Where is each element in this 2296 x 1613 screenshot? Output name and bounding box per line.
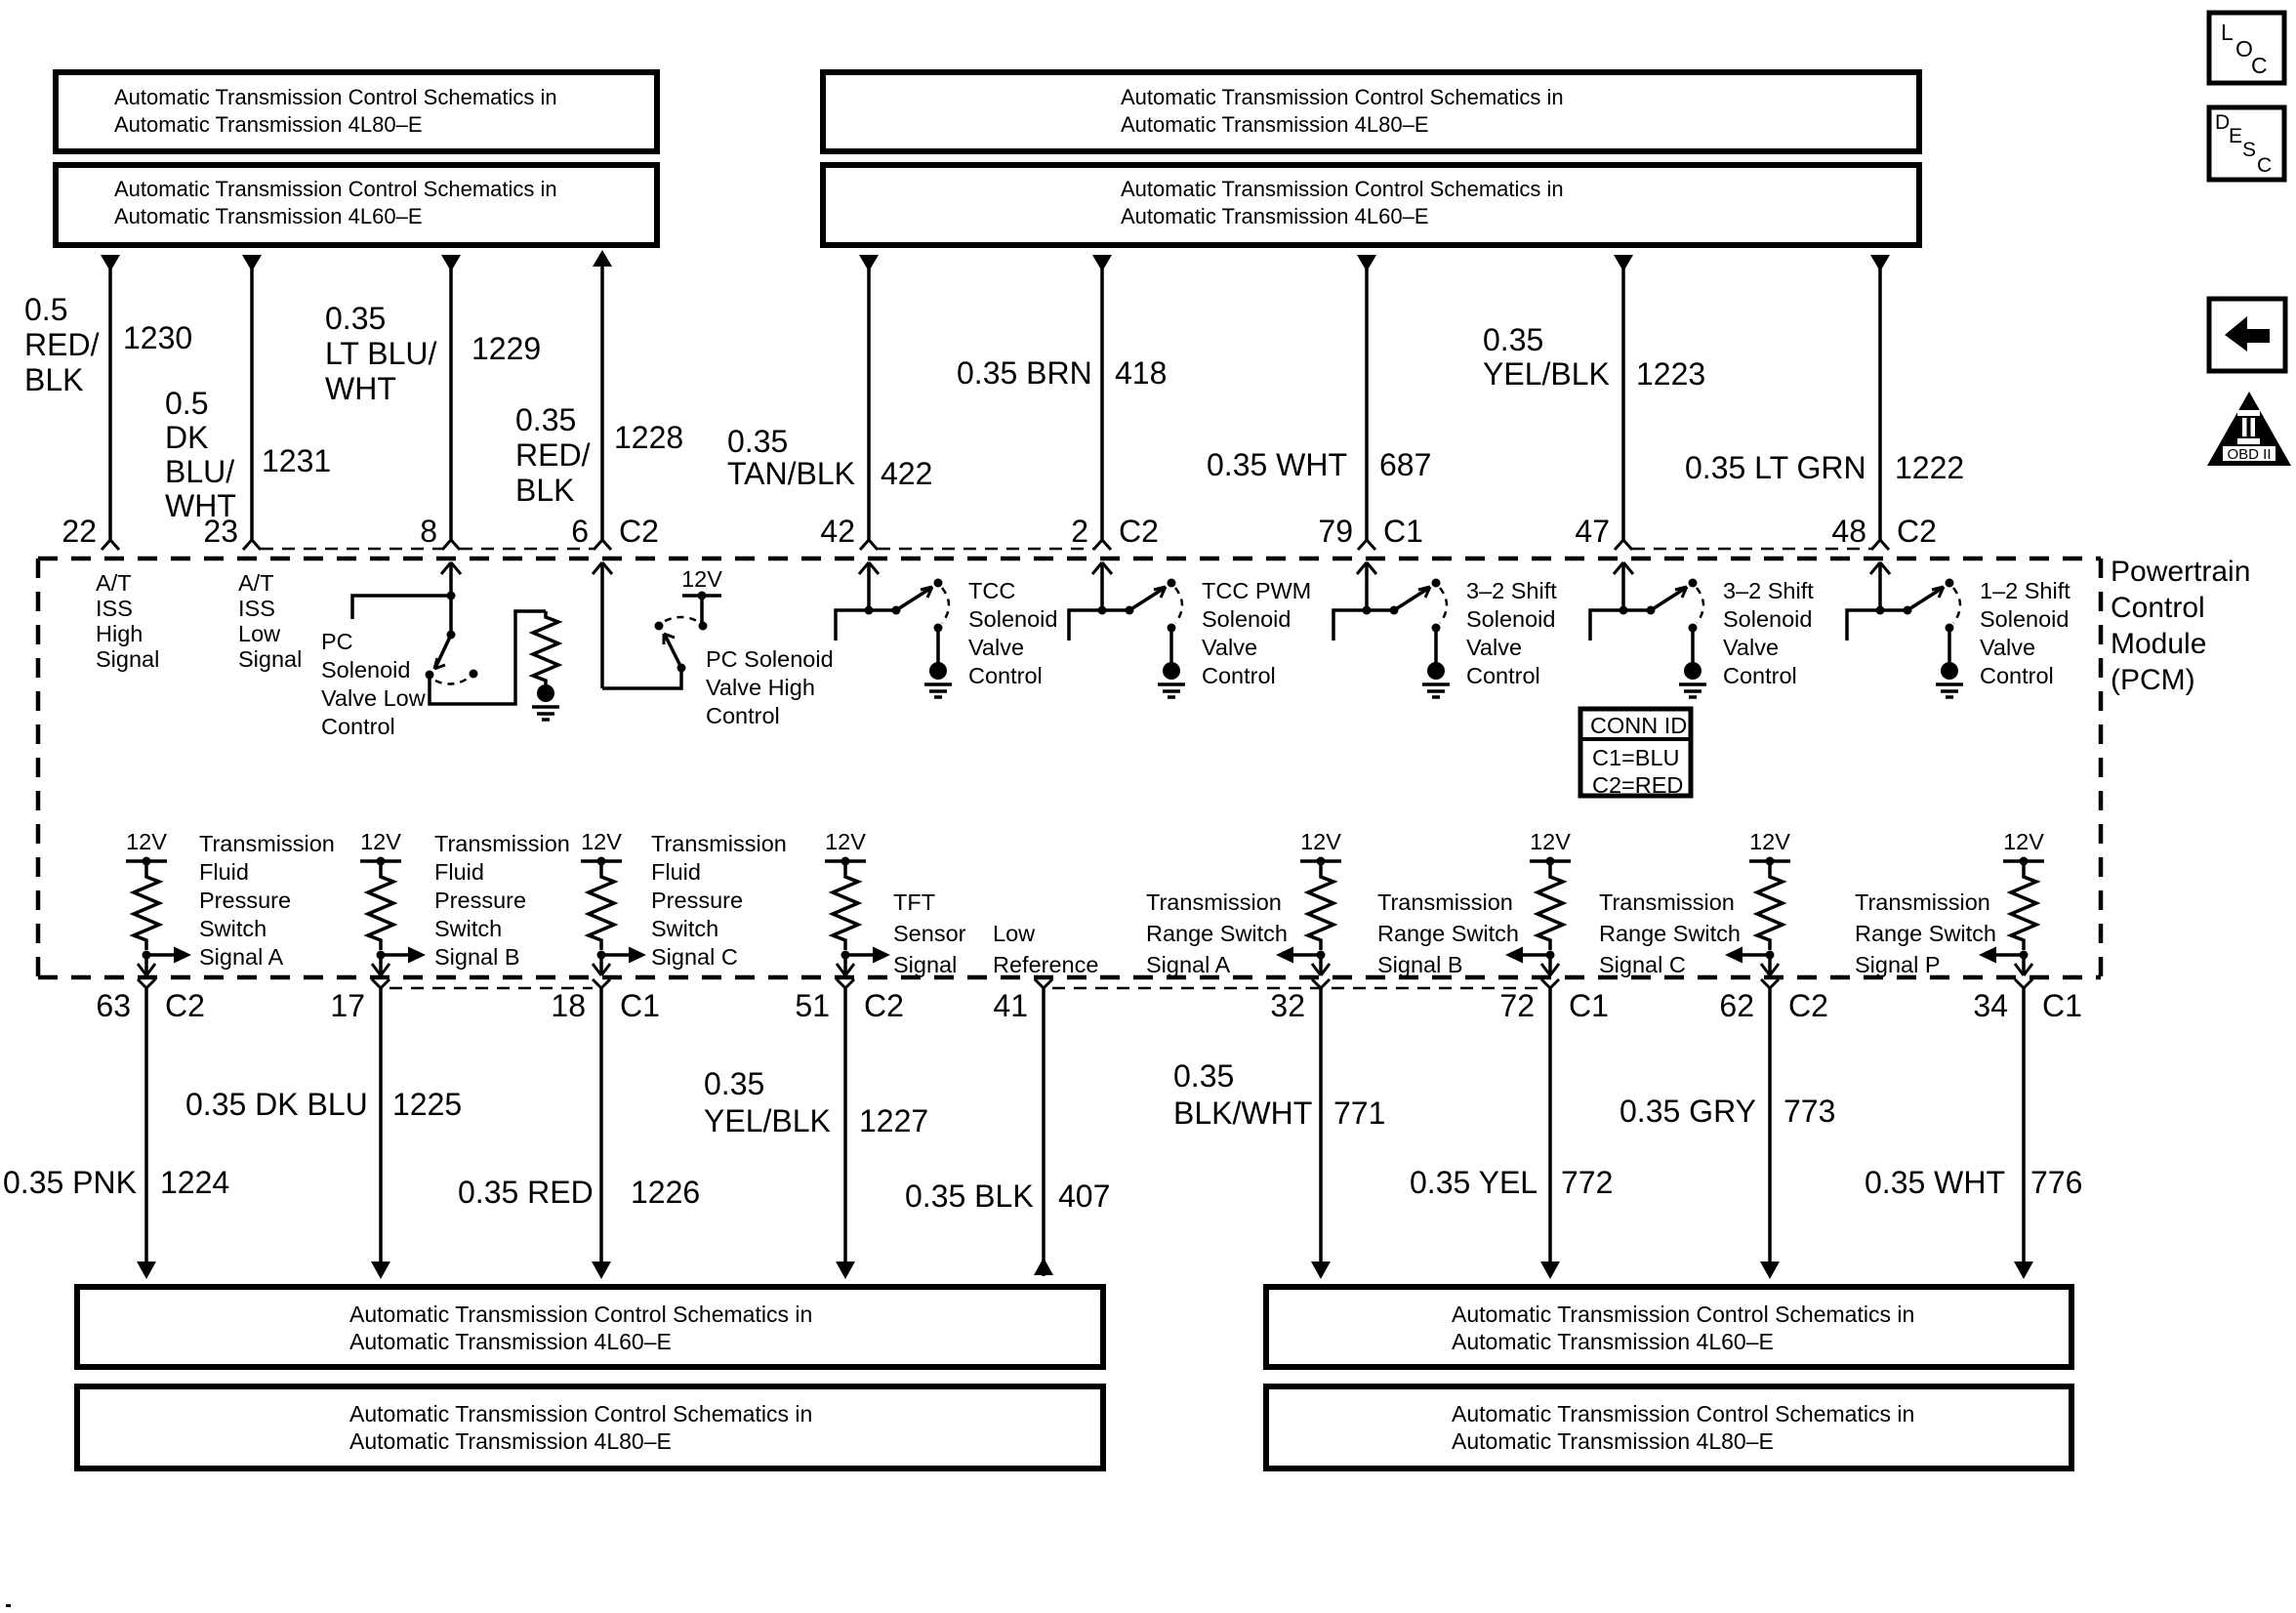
svg-text:422: 422 [881, 456, 932, 491]
junction dot (1-2 Shift Solenoid Valve Control (pin 48)) [1876, 606, 1885, 615]
wire circuit 418 (vertical, to pin 2) [1092, 255, 1112, 540]
wire label 0.35 DK BLU [185, 1087, 368, 1122]
svg-text:Signal C: Signal C [1599, 952, 1686, 977]
label: PC Solenoid Valve High Control [706, 646, 834, 728]
svg-text:Automatic Transmission Control: Automatic Transmission Control Schematic… [349, 1401, 812, 1427]
wire stub left (1-2 Shift Solenoid Valve Control (pin 48)) [1847, 610, 1880, 641]
12V pull-up and resistor: Transmission Fluid Pressure Switch Signal A [126, 829, 167, 960]
svg-text:Automatic Transmission Control: Automatic Transmission Control Schematic… [1452, 1302, 1914, 1327]
label: Transmission Range Switch Signal B [1377, 889, 1519, 977]
pin 51 connector (bottom): TFT Sensor Signal [837, 979, 854, 988]
wire to switch arm (TCC Solenoid Valve Control (pin 42)) [869, 608, 896, 612]
switch arm pivot (1-2 Shift Solenoid Valve Control (pin 48)) [1904, 606, 1912, 615]
pin 79 connector (PCM C1) [1358, 540, 1375, 550]
svg-text:Solenoid: Solenoid [1466, 606, 1555, 632]
svg-text:Reference: Reference [993, 952, 1098, 977]
svg-text:1–2 Shift: 1–2 Shift [1980, 578, 2070, 603]
label: TFT Sensor Signal [893, 889, 966, 977]
wire to ground (TCC Solenoid Valve Control (pin 42)) [936, 628, 940, 663]
svg-text:42: 42 [820, 514, 855, 549]
wire label 0.5 RED/BLK [24, 292, 100, 397]
svg-text:Signal A: Signal A [1146, 952, 1231, 977]
signal tap arrow: Transmission Fluid Pressure Switch Signal A [146, 947, 191, 964]
driver: 3-2 Shift Solenoid Valve Control (pin 79) [1357, 562, 1376, 610]
svg-text:62: 62 [1719, 988, 1754, 1023]
svg-text:D: D [2215, 111, 2230, 134]
resistor (PC solenoid low, internal) [533, 611, 558, 684]
driver: 1-2 Shift Solenoid Valve Control (pin 48) [1870, 562, 1890, 610]
wire label 0.35 BLK [905, 1179, 1034, 1214]
svg-text:12V: 12V [126, 829, 167, 854]
svg-text:47: 47 [1575, 514, 1610, 549]
driver: TCC PWM Solenoid Valve Control (pin 2) [1092, 562, 1112, 610]
dashed switch travel arc (3-2 Shift Solenoid Valve Control (pin 79)) [1440, 588, 1447, 623]
wire to bottom pin with chevron: TFT Sensor Signal [837, 955, 854, 975]
svg-text:C1=BLU: C1=BLU [1592, 745, 1679, 770]
label: Transmission Range Switch Signal C [1599, 889, 1741, 977]
svg-text:0.5: 0.5 [24, 292, 67, 327]
svg-text:1222: 1222 [1895, 450, 1964, 485]
switch contact PC low (left) [426, 671, 434, 680]
wire from PC low contact to resistor [430, 611, 546, 704]
svg-text:0.35 LT GRN: 0.35 LT GRN [1685, 450, 1866, 485]
wire to bottom pin with chevron: Transmission Range Switch Signal B [1541, 955, 1559, 975]
svg-text:Control: Control [1980, 663, 2054, 688]
ground (1-2 Shift Solenoid Valve Control (pin 48)) [1936, 662, 1963, 697]
ground (PC solenoid low resistor) [532, 684, 559, 720]
svg-text:0.35 WHT: 0.35 WHT [1865, 1165, 2005, 1200]
svg-text:Control: Control [968, 663, 1043, 688]
svg-text:Transmission: Transmission [651, 831, 787, 856]
svg-text:Control: Control [2111, 592, 2205, 624]
switch arm PC low (with arrowhead) [434, 635, 451, 669]
ground (3-2 Shift Solenoid Valve Control (pin 79)) [1422, 662, 1450, 697]
svg-text:12V: 12V [581, 829, 622, 854]
wire circuit 407 (vertical, below PCM) [1034, 988, 1053, 1276]
pin 2 connector (PCM C2) [1093, 540, 1111, 550]
wire circuit 1222 (vertical, to pin 48) [1870, 255, 1890, 540]
svg-text:Pressure: Pressure [199, 888, 291, 913]
svg-text:Solenoid: Solenoid [968, 606, 1057, 632]
svg-text:C2: C2 [1788, 988, 1828, 1023]
12V pull-up and resistor: Transmission Range Switch Signal C [1749, 829, 1790, 960]
pin 48 connector (PCM C2) [1871, 540, 1889, 550]
node: schematic reference box, bottom-right, Automatic Transmission 4L60-E [1266, 1287, 2071, 1367]
svg-text:Switch: Switch [434, 916, 502, 941]
svg-text:3–2 Shift: 3–2 Shift [1466, 578, 1557, 603]
svg-text:0.35: 0.35 [727, 424, 788, 459]
wire circuit 1225 (vertical, below PCM) [371, 988, 390, 1279]
svg-text:Signal P: Signal P [1855, 952, 1941, 977]
wire to bottom pin with chevron: Transmission Fluid Pressure Switch Signal A [138, 955, 155, 975]
wire label 0.35 BRN [957, 355, 1092, 391]
svg-text:C1: C1 [2042, 988, 2082, 1023]
svg-text:Transmission: Transmission [434, 831, 570, 856]
label: 3-2 Shift Solenoid Valve Control (pin 79) [1466, 578, 1557, 688]
12V pull-up and resistor: Transmission Range Switch Signal A [1300, 829, 1341, 960]
LOC icon box [2209, 13, 2284, 83]
pin 72 connector (bottom): Range Switch Signal B [1541, 979, 1559, 988]
svg-text:BLK: BLK [515, 473, 574, 508]
svg-text:TCC PWM: TCC PWM [1202, 578, 1311, 603]
wire circuit 776 (vertical, below PCM) [2014, 988, 2033, 1279]
svg-text:6: 6 [571, 514, 589, 549]
svg-text:YEL/BLK: YEL/BLK [704, 1103, 831, 1138]
svg-text:48: 48 [1831, 514, 1866, 549]
wire to ground (3-2 Shift Solenoid Valve Control (pin 47)) [1691, 628, 1695, 663]
switch contact bottom (3-2 Shift Solenoid Valve Control (pin 47)) [1689, 624, 1698, 633]
svg-text:Switch: Switch [651, 916, 718, 941]
wire circuit 771 (vertical, below PCM) [1311, 988, 1331, 1279]
svg-text:Control: Control [1466, 663, 1540, 688]
svg-text:0.35: 0.35 [515, 402, 576, 437]
wire to bottom pin with chevron: Transmission Range Switch Signal C [1761, 955, 1779, 975]
svg-text:0.5: 0.5 [165, 386, 208, 421]
node: Low Reference (pin 41) [993, 921, 1098, 977]
wire circuit 1230 (vertical, to pin 22) [101, 255, 120, 540]
svg-text:Automatic Transmission Control: Automatic Transmission Control Schematic… [1121, 85, 1564, 109]
pin 6 connector (PCM C2) [594, 540, 611, 550]
svg-text:RED/: RED/ [24, 327, 100, 362]
svg-text:1229: 1229 [471, 331, 541, 366]
svg-text:TAN/BLK: TAN/BLK [727, 456, 855, 491]
wire circuit 1224 (vertical, below PCM) [137, 988, 156, 1279]
svg-text:Automatic Transmission 4L60–E: Automatic Transmission 4L60–E [114, 204, 423, 228]
switch contact PC low (right, open) [470, 670, 478, 679]
connector boundary line segment pins 8-6 (fine dashed) [460, 548, 594, 551]
wire label 0.35 WHT [1207, 447, 1347, 482]
svg-text:12V: 12V [2003, 829, 2044, 854]
svg-text:771: 771 [1333, 1096, 1385, 1131]
svg-text:C2: C2 [619, 514, 659, 549]
switch contact bottom (TCC PWM Solenoid Valve Control (pin 2)) [1168, 624, 1176, 633]
12V pull-up and resistor: Transmission Fluid Pressure Switch Signal B [360, 829, 401, 960]
node: 12V (PC high) [698, 592, 707, 600]
svg-text:687: 687 [1379, 447, 1431, 482]
svg-text:PC: PC [321, 629, 353, 654]
svg-text:0.35 WHT: 0.35 WHT [1207, 447, 1347, 482]
svg-text:BLK: BLK [24, 362, 83, 397]
svg-text:1231: 1231 [262, 443, 331, 478]
svg-text:1228: 1228 [614, 420, 683, 455]
dashed switch travel arc (1-2 Shift Solenoid Valve Control (pin 48)) [1953, 588, 1960, 623]
switch contact top (TCC Solenoid Valve Control (pin 42)) [934, 579, 943, 588]
driver: PC Solenoid Valve High Control (pin 6) [593, 562, 612, 688]
svg-text:Sensor: Sensor [893, 921, 966, 946]
svg-text:776: 776 [2030, 1165, 2082, 1200]
switch arm pivot (3-2 Shift Solenoid Valve Control (pin 79)) [1390, 606, 1399, 615]
svg-text:RED/: RED/ [515, 437, 591, 473]
svg-text:C1: C1 [620, 988, 660, 1023]
svg-text:Switch: Switch [199, 916, 266, 941]
switch arm with arrowhead (3-2 Shift Solenoid Valve Control (pin 79)) [1394, 587, 1430, 610]
svg-text:Low: Low [993, 921, 1036, 946]
connector boundary line segment pins 47-48 (fine dashed) [1632, 548, 1871, 551]
svg-text:Automatic Transmission Control: Automatic Transmission Control Schematic… [1121, 177, 1564, 201]
svg-text:0.35: 0.35 [704, 1066, 764, 1101]
12V pull-up and resistor: Transmission Range Switch Signal B [1530, 829, 1571, 960]
svg-text:TFT: TFT [893, 889, 935, 915]
signal tap arrow: Transmission Range Switch Signal C [1725, 947, 1770, 964]
svg-text:Range Switch: Range Switch [1377, 921, 1519, 946]
svg-text:Pressure: Pressure [434, 888, 526, 913]
pin 34 connector (bottom): Range Switch Signal P [2015, 979, 2032, 988]
dashed switch travel arc (3-2 Shift Solenoid Valve Control (pin 47)) [1697, 588, 1703, 623]
node: A/T ISS Low Signal (pin 23) [238, 570, 302, 672]
svg-text:Valve: Valve [968, 635, 1024, 660]
svg-text:Automatic Transmission 4L80–E: Automatic Transmission 4L80–E [349, 1428, 672, 1454]
wire to bottom pin with chevron: Transmission Range Switch Signal P [2015, 955, 2032, 975]
svg-text:High: High [96, 621, 143, 646]
svg-text:C2=RED: C2=RED [1592, 772, 1683, 798]
svg-text:0.35 PNK: 0.35 PNK [3, 1165, 137, 1200]
svg-text:C2: C2 [1119, 514, 1159, 549]
pin 8 connector (PCM) [442, 540, 460, 550]
wire from pin 6 to switch arm pivot [602, 672, 681, 688]
switch contact top (TCC PWM Solenoid Valve Control (pin 2)) [1168, 579, 1176, 588]
svg-text:CONN ID: CONN ID [1590, 713, 1687, 738]
wire to ground (3-2 Shift Solenoid Valve Control (pin 79)) [1434, 628, 1438, 663]
svg-text:Transmission: Transmission [199, 831, 335, 856]
svg-text:Module: Module [2111, 628, 2206, 660]
svg-text:ISS: ISS [238, 596, 275, 621]
junction dot (3-2 Shift Solenoid Valve Control (pin 79)) [1363, 606, 1372, 615]
svg-text:C: C [2257, 154, 2272, 177]
svg-text:0.35 GRY: 0.35 GRY [1619, 1094, 1756, 1129]
ground (3-2 Shift Solenoid Valve Control (pin 47)) [1679, 662, 1706, 697]
wire label 0.35 YEL/BLK [1483, 322, 1610, 392]
svg-text:Range Switch: Range Switch [1599, 921, 1741, 946]
driver: TCC Solenoid Valve Control (pin 42) [859, 562, 879, 610]
label: Transmission Fluid Pressure Switch Signal B [434, 831, 570, 970]
svg-text:72: 72 [1499, 988, 1535, 1023]
svg-text:LT BLU/: LT BLU/ [325, 336, 437, 371]
svg-text:WHT: WHT [165, 488, 236, 523]
svg-text:1227: 1227 [859, 1103, 928, 1138]
wire label 0.35 WHT (lower) [1865, 1165, 2005, 1200]
wire label 0.35 YEL/BLK (lower) [704, 1066, 831, 1138]
svg-text:41: 41 [993, 988, 1028, 1023]
svg-text:0.35 BRN: 0.35 BRN [957, 355, 1092, 391]
svg-text:Range Switch: Range Switch [1146, 921, 1288, 946]
node: A/T ISS High Signal (pin 22) [96, 570, 159, 672]
svg-text:E: E [2229, 125, 2242, 147]
svg-text:Automatic Transmission 4L80–E: Automatic Transmission 4L80–E [1121, 112, 1429, 137]
pin 63 connector (bottom): TFPS Signal A [138, 979, 155, 988]
wire to bottom pin with chevron: Transmission Fluid Pressure Switch Signal B [372, 955, 389, 975]
svg-text:Automatic Transmission 4L80–E: Automatic Transmission 4L80–E [114, 112, 423, 137]
driver: PC Solenoid Valve Low Control (pin 8) [441, 562, 461, 635]
wire to bottom pin with chevron: Transmission Fluid Pressure Switch Signal C [593, 955, 610, 975]
switch arm pivot PC high [677, 664, 686, 673]
label: 3-2 Shift Solenoid Valve Control (pin 47) [1723, 578, 1814, 688]
pin 22 connector (PCM) [102, 540, 119, 550]
svg-text:1224: 1224 [160, 1165, 229, 1200]
wire circuit 1226 (vertical, below PCM) [592, 988, 611, 1279]
svg-text:Signal: Signal [238, 646, 302, 672]
svg-text:Control: Control [1202, 663, 1276, 688]
wire stub left of PC solenoid low driver [352, 596, 451, 619]
svg-text:Automatic Transmission Control: Automatic Transmission Control Schematic… [349, 1302, 812, 1327]
switch contact top (1-2 Shift Solenoid Valve Control (pin 48)) [1946, 579, 1954, 588]
svg-text:Transmission: Transmission [1146, 889, 1282, 915]
svg-text:Signal B: Signal B [434, 944, 520, 970]
switch arm with arrowhead (3-2 Shift Solenoid Valve Control (pin 47)) [1651, 587, 1687, 610]
back-arrow icon box [2209, 299, 2285, 371]
svg-text:Automatic Transmission Control: Automatic Transmission Control Schematic… [114, 85, 557, 109]
wire to ground (1-2 Shift Solenoid Valve Control (pin 48)) [1947, 628, 1951, 663]
12V pull-up and resistor: Transmission Range Switch Signal P [2003, 829, 2044, 960]
svg-text:Automatic Transmission Control: Automatic Transmission Control Schematic… [114, 177, 557, 201]
svg-text:12V: 12V [360, 829, 401, 854]
svg-text:BLK/WHT: BLK/WHT [1173, 1096, 1312, 1131]
wire circuit 422 (vertical, to pin 42) [859, 255, 879, 540]
svg-text:Signal B: Signal B [1377, 952, 1463, 977]
svg-text:Control: Control [321, 714, 395, 739]
svg-text:C1: C1 [1569, 988, 1609, 1023]
svg-text:WHT: WHT [325, 371, 396, 406]
label: Transmission Fluid Pressure Switch Signal A [199, 831, 335, 970]
svg-text:Low: Low [238, 621, 281, 646]
label: TCC Solenoid Valve Control (pin 42) [968, 578, 1057, 688]
svg-text:0.35: 0.35 [1483, 322, 1543, 357]
dashed switch travel arc PC low [435, 679, 468, 684]
wire circuit 1228 (vertical, to pin 6) [593, 250, 612, 540]
CONN ID legend box (C1=BLU, C2=RED) [1580, 709, 1691, 798]
label: Transmission Range Switch Signal P [1855, 889, 1996, 977]
svg-text:C2: C2 [165, 988, 205, 1023]
svg-text:Automatic Transmission 4L60–E: Automatic Transmission 4L60–E [349, 1329, 672, 1354]
connector boundary line segment pins 41-72 (fine dashed) [1052, 987, 1541, 990]
wire label 0.35 RED/BLK [515, 402, 591, 508]
Powertrain Control Module (PCM) dashed enclosure [38, 558, 2101, 977]
node: schematic reference box, bottom-left, Automatic Transmission 4L60-E [77, 1287, 1103, 1367]
signal tap arrow: Transmission Fluid Pressure Switch Signal C [601, 947, 646, 964]
switch arm PC high (with arrowhead) [664, 634, 681, 668]
pin 23 connector (PCM) [243, 540, 261, 550]
switch contact bottom (1-2 Shift Solenoid Valve Control (pin 48)) [1946, 624, 1954, 633]
svg-text:773: 773 [1783, 1094, 1835, 1129]
svg-text:Transmission: Transmission [1855, 889, 1990, 915]
svg-text:Fluid: Fluid [199, 859, 249, 885]
svg-text:Automatic Transmission 4L60–E: Automatic Transmission 4L60–E [1452, 1329, 1774, 1354]
svg-text:Fluid: Fluid [651, 859, 701, 885]
dashed switch travel arc (TCC PWM Solenoid Valve Control (pin 2)) [1175, 588, 1182, 623]
svg-text:32: 32 [1270, 988, 1305, 1023]
wire to switch arm (3-2 Shift Solenoid Valve Control (pin 47)) [1623, 608, 1651, 612]
svg-text:Automatic Transmission 4L60–E: Automatic Transmission 4L60–E [1121, 204, 1429, 228]
wire circuit 772 (vertical, below PCM) [1540, 988, 1560, 1279]
svg-text:51: 51 [795, 988, 830, 1023]
svg-text:Powertrain: Powertrain [2111, 556, 2250, 588]
wire stub left (3-2 Shift Solenoid Valve Control (pin 47)) [1590, 610, 1623, 641]
svg-text:C2: C2 [1897, 514, 1937, 549]
svg-text:Control: Control [1723, 663, 1797, 688]
node: schematic reference box, bottom-left, Automatic Transmission 4L80-E [77, 1386, 1103, 1468]
svg-text:3–2 Shift: 3–2 Shift [1723, 578, 1814, 603]
label: PC Solenoid Valve Low Control [321, 629, 427, 739]
svg-text:Transmission: Transmission [1377, 889, 1513, 915]
svg-text:0.35: 0.35 [325, 301, 386, 336]
svg-text:Signal A: Signal A [199, 944, 284, 970]
wire to bottom pin with chevron: Transmission Range Switch Signal A [1312, 955, 1330, 975]
pin 41 connector (bottom): Low Reference [1035, 979, 1052, 988]
svg-text:(PCM): (PCM) [2111, 664, 2195, 696]
svg-text:Valve High: Valve High [706, 675, 815, 700]
stray scan mark bottom-left [6, 1604, 11, 1607]
svg-text:Solenoid: Solenoid [1202, 606, 1291, 632]
svg-text:Range Switch: Range Switch [1855, 921, 1996, 946]
DESC icon box [2209, 107, 2284, 180]
pin 42 connector (PCM) [860, 540, 878, 550]
svg-text:Valve: Valve [1980, 635, 2035, 660]
svg-text:C2: C2 [864, 988, 904, 1023]
pin 18 connector (bottom): TFPS Signal C [593, 979, 610, 988]
svg-text:0.35 YEL: 0.35 YEL [1410, 1165, 1537, 1200]
switch contact (arm pivot) PC low [447, 631, 456, 640]
switch arm with arrowhead (1-2 Shift Solenoid Valve Control (pin 48)) [1907, 587, 1944, 610]
svg-text:63: 63 [96, 988, 131, 1023]
svg-text:12V: 12V [1300, 829, 1341, 854]
svg-text:772: 772 [1561, 1165, 1613, 1200]
node: schematic reference box, top-left, Automatic Transmission 4L60-E [56, 165, 657, 245]
svg-text:Valve: Valve [1466, 635, 1522, 660]
node: schematic reference box, top-right, Automatic Transmission 4L80-E [823, 72, 1919, 151]
svg-text:A/T: A/T [238, 570, 274, 596]
svg-text:12V: 12V [1530, 829, 1571, 854]
junction dot (TCC PWM Solenoid Valve Control (pin 2)) [1098, 606, 1107, 615]
svg-text:0.35: 0.35 [1173, 1058, 1234, 1094]
12V pull-up and resistor: Transmission Fluid Pressure Switch Signal C [581, 829, 622, 960]
wire circuit 773 (vertical, below PCM) [1760, 988, 1780, 1279]
switch contact bottom (TCC Solenoid Valve Control (pin 42)) [934, 624, 943, 633]
dashed switch travel arc (TCC Solenoid Valve Control (pin 42)) [942, 588, 949, 623]
switch arm with arrowhead (TCC PWM Solenoid Valve Control (pin 2)) [1129, 587, 1166, 610]
svg-text:Automatic Transmission Control: Automatic Transmission Control Schematic… [1452, 1401, 1914, 1427]
signal tap arrow: Transmission Range Switch Signal B [1505, 947, 1550, 964]
svg-text:Fluid: Fluid [434, 859, 484, 885]
signal tap arrow: Transmission Range Switch Signal P [1979, 947, 2024, 964]
svg-text:C: C [2251, 53, 2268, 78]
12V supply rail (PC high) [682, 596, 721, 626]
svg-text:0.35 RED: 0.35 RED [458, 1175, 594, 1210]
svg-text:17: 17 [330, 988, 365, 1023]
node junction at pin 8 branch [447, 592, 456, 600]
svg-text:C1: C1 [1383, 514, 1423, 549]
wire stub left (TCC PWM Solenoid Valve Control (pin 2)) [1069, 610, 1102, 641]
wire label 0.35 LT GRN [1685, 450, 1866, 485]
svg-text:Valve Low: Valve Low [321, 685, 427, 711]
svg-text:BLU/: BLU/ [165, 454, 234, 489]
svg-text:0.35 DK BLU: 0.35 DK BLU [185, 1087, 368, 1122]
svg-text:Signal: Signal [893, 952, 957, 977]
wire label 0.35 PNK [3, 1165, 137, 1200]
junction dot (3-2 Shift Solenoid Valve Control (pin 47)) [1619, 606, 1628, 615]
svg-text:2: 2 [1071, 514, 1088, 549]
svg-text:407: 407 [1058, 1179, 1110, 1214]
wire label 0.35 TAN/BLK [727, 424, 855, 491]
label: Powertrain Control Module (PCM) [2111, 556, 2250, 696]
svg-text:Solenoid: Solenoid [1723, 606, 1812, 632]
12V pull-up and resistor: TFT Sensor Signal [825, 829, 866, 960]
svg-text:1225: 1225 [392, 1087, 462, 1122]
wire stub left (TCC Solenoid Valve Control (pin 42)) [836, 610, 869, 641]
svg-text:418: 418 [1115, 355, 1167, 391]
svg-text:12V: 12V [681, 566, 722, 592]
switch contact PC high (left, open) [655, 622, 664, 631]
svg-text:8: 8 [420, 514, 437, 549]
node: schematic reference box, top-left, Automatic Transmission 4L80-E [56, 72, 657, 151]
